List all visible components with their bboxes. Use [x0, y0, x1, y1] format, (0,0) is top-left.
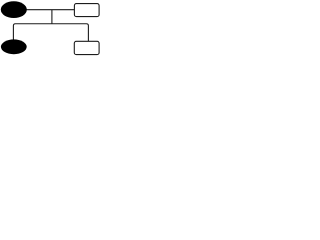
node: rectangle (top-right box): [74, 4, 99, 17]
wire: top horizontal connector from ellipse1 to rect1: [24, 9, 75, 11]
wire: vertical drop from top connector midpoint: [51, 10, 53, 24]
node: filled ellipse (top-left individual): [1, 1, 27, 18]
node: rectangle (bottom-right box): [74, 41, 99, 54]
background: [0, 0, 103, 58]
node: filled ellipse (bottom-left individual): [1, 39, 27, 54]
wire: second-row connector with corners down to ellipse2 and rect2: [13, 24, 88, 42]
